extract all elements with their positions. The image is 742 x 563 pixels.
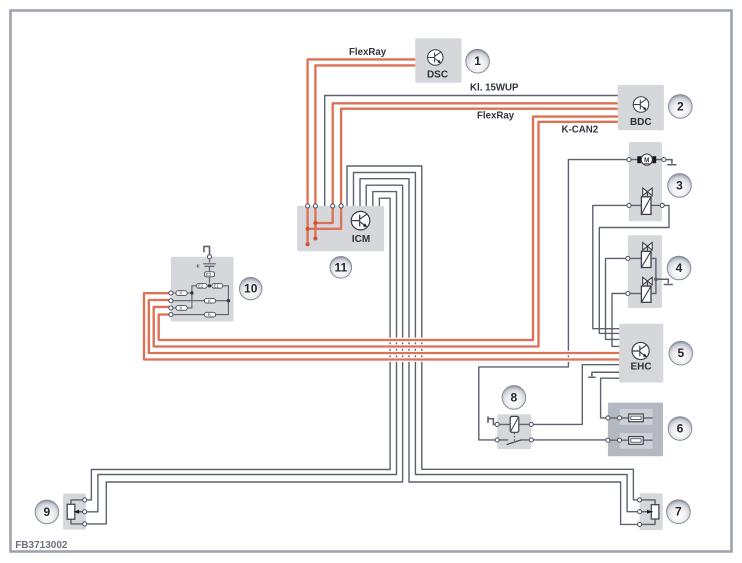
pin valve3 terminals: [627, 203, 631, 207]
svg-text:E1: E1: [214, 283, 220, 288]
wire bus box10 to EHC 1: [149, 300, 619, 353]
svg-text:BDC: BDC: [630, 117, 652, 128]
wire box7 pot top link: [640, 500, 656, 505]
wire relay to fuse2: [531, 439, 652, 441]
svg-text:Kl. 15WUP: Kl. 15WUP: [470, 82, 519, 93]
wire E1 right drop: [216, 286, 229, 315]
component box 9 (height sensor left): [63, 494, 86, 530]
wire bus box10 to EHC 2: [144, 293, 619, 359]
pin box10 antenna terminal: [207, 255, 211, 259]
wire ICM to box9 terminal3: [85, 185, 403, 524]
node label 4: [667, 256, 691, 280]
node label 5: [669, 341, 693, 365]
wire FlexRay BDC pair 1: [333, 103, 618, 206]
antenna / ground hook: [204, 246, 210, 255]
valve Y2: [641, 243, 652, 268]
wire ICM to box7 terminal2: [354, 173, 640, 512]
potentiometer R-right: [651, 505, 659, 519]
component E1: [212, 283, 223, 288]
component box 10 (control panel): [171, 257, 234, 322]
component box 3 (compressor unit): [629, 142, 662, 221]
ground at EHC: [588, 372, 619, 377]
svg-text:6: 6: [677, 422, 684, 436]
pin box9 terminals: [83, 498, 87, 502]
svg-text:1: 1: [474, 54, 481, 68]
node label 1: [466, 49, 490, 73]
svg-text:K: K: [208, 298, 211, 303]
wire ICM internal stub 2: [306, 229, 308, 245]
svg-text:FB3713002: FB3713002: [15, 540, 68, 551]
op-amp symbol ICM: [351, 211, 370, 230]
ground at valve unit 4: [656, 279, 673, 284]
svg-text:9: 9: [44, 505, 51, 519]
node ICM splice dots: [306, 221, 318, 246]
node valve4 junction: [654, 277, 658, 281]
svg-text:4: 4: [676, 261, 683, 275]
wire K-CAN2 pair 2 BDC to box10: [154, 122, 618, 347]
svg-text:E2: E2: [198, 283, 204, 288]
component box 4 (valve unit): [628, 235, 662, 308]
op-amp symbol EHC: [632, 342, 649, 359]
node label 9: [35, 500, 59, 524]
relay K row1: [171, 292, 192, 294]
svg-text:2: 2: [677, 99, 684, 113]
fuse F2: [629, 437, 644, 445]
node dots box10: [190, 291, 193, 294]
wire Kl.15WUP BDC to ICM: [325, 96, 618, 206]
wire box9 pot top link: [71, 500, 85, 504]
svg-text:FlexRay: FlexRay: [349, 47, 387, 58]
wire valve4a row: [628, 257, 642, 259]
wire valve4b left to EHC pin4: [612, 294, 628, 347]
relay switch contact: [497, 439, 531, 441]
pin valve4 terminals: [626, 256, 630, 260]
svg-text:10: 10: [244, 282, 258, 296]
component E box: [205, 272, 215, 277]
wire FlexRay DSC pair 2: [315, 65, 415, 206]
wire FlexRay BDC pair 2: [341, 109, 618, 206]
wire ICM to box9 terminal2: [85, 192, 397, 512]
node label 7: [667, 500, 691, 524]
node label 10: [240, 277, 262, 299]
valve Y3: [641, 277, 652, 302]
ground at relay: [488, 416, 497, 424]
node label 8: [502, 386, 526, 410]
control unit box BDC: [618, 85, 664, 130]
motor M1: [629, 154, 664, 165]
svg-text:ICM: ICM: [352, 234, 370, 245]
component box 8 (relay): [497, 414, 531, 449]
pin ICM T1-T4: [306, 204, 310, 208]
capacitor C: [203, 258, 216, 272]
wire ICM internal link T2-T3: [315, 206, 332, 223]
wire motor supply from relay: [479, 160, 629, 440]
wire valve3 right to EHC pin2: [599, 205, 669, 333]
svg-text:K: K: [208, 312, 211, 317]
wire box9 pot wiper: [78, 511, 85, 513]
svg-text:11: 11: [334, 260, 347, 274]
wire E2 left drop: [187, 286, 196, 308]
svg-text:EHC: EHC: [630, 361, 651, 372]
fuse F1: [629, 414, 644, 422]
wire K-CAN2 pair 1 BDC to box10: [159, 117, 618, 340]
relay K row2: [171, 300, 229, 302]
control unit box ICM: [297, 206, 384, 251]
svg-text:K: K: [180, 291, 183, 296]
wire valve4 right side link: [651, 258, 656, 293]
svg-text:M: M: [644, 157, 649, 164]
wire valve4a left to EHC pin3: [606, 258, 628, 339]
component box 6 (fuse carrier): [608, 403, 663, 457]
svg-text:7: 7: [675, 505, 682, 519]
pin fuse terminals: [606, 416, 610, 420]
wire box9 pot bottom link: [71, 519, 85, 524]
wire EHC to fuse1: [601, 378, 653, 418]
wire valve4b row: [628, 293, 642, 295]
svg-text:c: c: [197, 264, 200, 270]
component box 7 (height sensor right): [640, 493, 663, 530]
svg-text:8: 8: [511, 390, 518, 404]
svg-text:3: 3: [676, 178, 683, 192]
relay K row3: [171, 307, 176, 309]
relay coil K1: [510, 416, 519, 432]
svg-text:DSC: DSC: [427, 70, 448, 81]
svg-text:E2: E2: [206, 272, 212, 277]
ground at motor: [666, 160, 677, 165]
wire ICM to box7 terminal1: [347, 166, 640, 500]
pin box10 left terminals: [169, 291, 173, 295]
wire valve3 row: [629, 204, 662, 206]
wire ICM internal link T1-T4: [308, 206, 342, 229]
svg-text:5: 5: [677, 346, 684, 360]
wire FlexRay DSC pair 1: [308, 59, 416, 206]
op-amp symbol BDC: [633, 97, 648, 112]
relay K row4: [171, 314, 205, 316]
wire ICM to box7 terminal3: [360, 179, 640, 525]
potentiometer R-left: [67, 504, 75, 519]
valve Y1 in box 3: [641, 188, 652, 214]
control unit box DSC: [415, 38, 461, 83]
svg-text:K: K: [180, 306, 183, 311]
pin box7 terminals: [638, 498, 642, 502]
node label 2: [669, 95, 693, 119]
wire box7 pot wiper: [640, 511, 649, 513]
node label 6: [668, 417, 692, 441]
component E2: [196, 283, 207, 288]
wire EHC to relay coil: [531, 365, 619, 425]
op-amp symbol DSC: [428, 50, 443, 65]
svg-text:K-CAN2: K-CAN2: [562, 124, 599, 135]
wire box7 pot bottom link: [640, 519, 656, 525]
control unit box EHC: [619, 324, 663, 383]
node label 11: [330, 257, 352, 279]
node label 3: [668, 174, 692, 198]
pin relay terminals: [495, 422, 499, 426]
dashed crossings of sensor bundle over orange bus: [390, 342, 422, 357]
node between E2 and E1: [208, 284, 211, 287]
pin motor terminals: [627, 158, 631, 162]
wire ICM internal stub 1: [314, 223, 316, 239]
wire valve3 left to EHC pin1: [593, 205, 629, 328]
wire ICM to box9 terminal1: [85, 198, 390, 500]
svg-text:FlexRay: FlexRay: [477, 111, 515, 122]
